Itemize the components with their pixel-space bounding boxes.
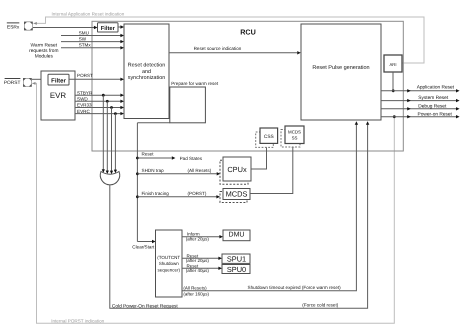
svg-text:EVR33: EVR33 [77, 103, 92, 108]
svg-text:Internal Application Reset ind: Internal Application Reset indication [52, 12, 125, 17]
svg-text:Pad States: Pad States [180, 156, 203, 161]
svg-text:sequencer): sequencer) [157, 267, 180, 272]
svg-text:SS: SS [292, 136, 298, 141]
svg-text:EVRC: EVRC [77, 109, 90, 114]
svg-text:SHDN trap: SHDN trap [142, 168, 165, 173]
svg-text:(TOUTCNT: (TOUTCNT [157, 255, 180, 260]
svg-text:ARI: ARI [390, 62, 397, 67]
svg-text:and: and [142, 69, 151, 75]
svg-text:Shutdown timeout expired (For: Shutdown timeout expired (Force warm res… [248, 285, 342, 290]
svg-text:(All Resets): (All Resets) [183, 285, 207, 290]
svg-text:PORST: PORST [77, 73, 93, 78]
svg-text:Cold Power-On Reset Request: Cold Power-On Reset Request [112, 303, 179, 309]
svg-text:Reset detection: Reset detection [128, 63, 165, 69]
svg-text:MCDS: MCDS [288, 129, 301, 134]
svg-text:Debug Reset: Debug Reset [418, 104, 447, 110]
svg-text:synchronization: synchronization [128, 75, 165, 81]
svg-text:EVR: EVR [50, 91, 67, 100]
svg-text:PORST: PORST [4, 80, 21, 86]
svg-text:requests from: requests from [29, 48, 58, 54]
svg-text:Internal PORST indication: Internal PORST indication [51, 318, 104, 323]
svg-text:SMU: SMU [79, 30, 89, 35]
svg-text:(PORST): (PORST) [188, 191, 207, 196]
svg-text:Finish tracing: Finish tracing [142, 191, 170, 196]
svg-text:(after 40µs): (after 40µs) [186, 268, 210, 273]
svg-text:Filter: Filter [51, 77, 66, 84]
svg-text:Modules: Modules [35, 53, 54, 59]
svg-text:STMx: STMx [79, 43, 92, 48]
svg-text:Reset Pulse generation: Reset Pulse generation [312, 65, 369, 71]
svg-text:Warm Reset: Warm Reset [31, 42, 58, 48]
svg-text:(All Resets): (All Resets) [188, 168, 212, 173]
svg-text:SPU1: SPU1 [227, 255, 246, 264]
svg-text:MCDS: MCDS [226, 190, 248, 199]
svg-text:Application Reset: Application Reset [417, 84, 455, 90]
svg-text:(after 20µs): (after 20µs) [186, 237, 210, 242]
svg-text:Filter: Filter [101, 25, 116, 32]
svg-text:Clear/Start: Clear/Start [132, 244, 155, 249]
svg-text:(after 160µs): (after 160µs) [183, 292, 209, 297]
svg-text:SWD: SWD [77, 97, 88, 102]
svg-text:RCU: RCU [240, 28, 256, 37]
svg-text:DMU: DMU [229, 232, 245, 239]
svg-text:Prepare for warm reset: Prepare for warm reset [171, 81, 219, 86]
svg-text:CPUx: CPUx [227, 165, 247, 174]
svg-text:Reset: Reset [142, 152, 155, 157]
svg-text:(after 20µs): (after 20µs) [186, 258, 210, 263]
svg-text:Power-on Reset: Power-on Reset [418, 111, 453, 117]
svg-text:Shutdown: Shutdown [159, 261, 180, 266]
svg-text:SW: SW [79, 36, 87, 41]
svg-text:(Force cold reset): (Force cold reset) [302, 302, 338, 307]
svg-text:Inform: Inform [187, 231, 200, 236]
svg-text:CSS: CSS [264, 134, 274, 140]
svg-text:System Reset: System Reset [418, 95, 449, 101]
svg-text:STBYR: STBYR [77, 90, 93, 95]
svg-text:Reset source indication: Reset source indication [194, 46, 242, 51]
svg-text:SPU0: SPU0 [227, 265, 246, 274]
svg-text:ESRx: ESRx [7, 24, 20, 30]
